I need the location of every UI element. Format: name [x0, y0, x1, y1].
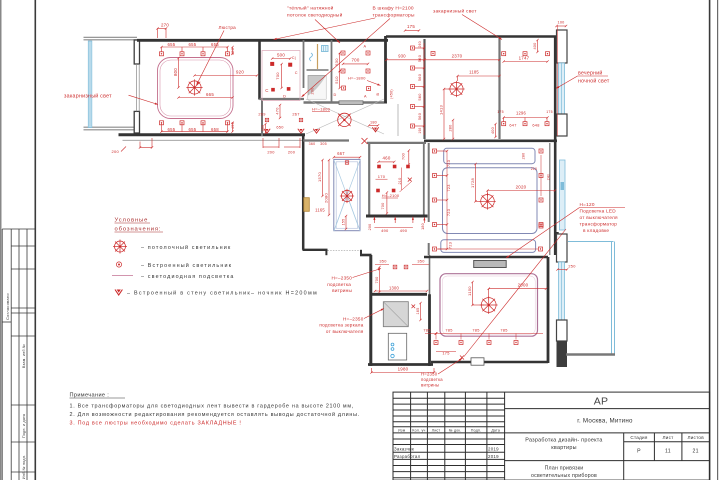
svg-text:155: 155 [341, 219, 345, 226]
svg-text:2. Для возможности редактирова: 2. Для возможности редактирования рекоме… [70, 411, 360, 418]
svg-text:800: 800 [173, 68, 178, 76]
right balcony cyan outline [568, 242, 615, 355]
top wall right section [386, 35, 557, 38]
svg-text:Согласовано: Согласовано [5, 293, 10, 320]
svg-text:305: 305 [320, 142, 327, 146]
svg-text:от выключателя: от выключателя [326, 329, 364, 334]
svg-text:№ док.: № док. [449, 428, 462, 432]
drawing frame right line [709, 0, 711, 480]
wc middle wall [307, 69, 329, 71]
svg-text:Заказчик: Заказчик [394, 447, 414, 452]
svg-text:1296: 1296 [516, 111, 527, 116]
roomA top squares [431, 52, 435, 56]
svg-text:D: D [283, 95, 286, 99]
svg-text:трансформатор: трансформатор [580, 222, 618, 227]
svg-text:350: 350 [379, 259, 387, 264]
svg-text:198: 198 [418, 127, 422, 133]
bedroom1 bottom wall [119, 133, 306, 136]
corridor floor wall joint [261, 100, 263, 136]
wardrobe dims [270, 62, 274, 66]
svg-text:– Встроенный светильник: – Встроенный светильник [141, 262, 232, 269]
storage left wall [368, 142, 370, 216]
svg-text:470: 470 [275, 107, 280, 115]
svg-text:360: 360 [309, 142, 316, 146]
bedroom1 bottom downlight row [160, 121, 164, 125]
svg-text:170: 170 [378, 174, 386, 179]
svg-text:вечерний: вечерний [578, 70, 603, 77]
1980 dim [372, 372, 435, 374]
bedroom1 left wall pier bottom [134, 111, 139, 133]
svg-text:Изм: Изм [398, 428, 406, 432]
svg-text:460: 460 [382, 155, 390, 160]
svg-text:H=120: H=120 [580, 202, 595, 207]
kitchen door X mark [362, 138, 368, 144]
svg-text:2080: 2080 [323, 193, 328, 203]
storage right wall [423, 143, 425, 216]
svg-text:647: 647 [509, 123, 516, 128]
corridor chandelier area [338, 113, 351, 126]
kitchen chandelier [340, 189, 354, 203]
top-right rooms bottom wall [424, 140, 557, 143]
svg-text:закарнизный свет: закарнизный свет [64, 93, 112, 100]
corridor right partition [423, 39, 425, 139]
right window 100 dim [557, 25, 567, 27]
svg-text:723: 723 [446, 160, 451, 167]
svg-text:560: 560 [417, 93, 422, 101]
corridor bottom wall left [138, 134, 262, 136]
roomB top downlights [502, 52, 506, 56]
bedroom1 left wall pier top [134, 40, 139, 64]
page border left edge [0, 0, 2, 480]
roomB bottom group [504, 117, 548, 119]
svg-text:осветительных приборов: осветительных приборов [531, 473, 597, 479]
bedroom1 top downlight row [160, 52, 164, 56]
kitchen bottom wall [303, 249, 328, 251]
bedroom2 cove band bottom [441, 240, 536, 253]
svg-text:1. Все трансформаторы для свет: 1. Все трансформаторы для светодиодных л… [70, 404, 354, 410]
svg-text:H=2350: H=2350 [421, 372, 438, 377]
legend led strip symbol [112, 275, 133, 277]
svg-text:450: 450 [261, 125, 265, 132]
svg-text:700: 700 [275, 72, 280, 80]
kitchen door tan [304, 198, 310, 212]
svg-text:655: 655 [189, 42, 197, 47]
svg-text:Разработал: Разработал [394, 454, 421, 459]
svg-text:175: 175 [546, 110, 553, 114]
svg-text:– Встроенный в стену светильни: – Встроенный в стену светильник– ночник … [127, 290, 318, 297]
svg-text:655: 655 [189, 127, 197, 132]
svg-text:План привязки: План привязки [545, 466, 584, 472]
svg-text:400: 400 [491, 127, 495, 134]
svg-text:240: 240 [547, 174, 551, 180]
bedroom1 dim 270 [158, 28, 167, 30]
shaft wall bottom black [557, 341, 568, 367]
svg-text:490: 490 [400, 228, 408, 233]
lobby/bath right wall upper [429, 255, 431, 296]
svg-text:C: C [295, 71, 298, 75]
closet partition wall [549, 143, 551, 255]
svg-text:D: D [334, 93, 337, 97]
svg-text:C|: C| [292, 56, 296, 60]
svg-text:785: 785 [445, 328, 452, 333]
svg-text:2370: 2370 [452, 53, 463, 58]
svg-text:658: 658 [211, 127, 219, 132]
svg-text:700: 700 [381, 202, 385, 209]
svg-text:3. Под все люстры необходимо с: 3. Под все люстры необходимо сделать ЗАК… [70, 421, 242, 427]
right window pier top [557, 30, 568, 63]
closet window cyan strip right middle [560, 160, 566, 230]
svg-text:100: 100 [557, 21, 564, 25]
svg-text:450: 450 [230, 47, 235, 55]
wc/bath bottom wall [304, 101, 388, 104]
svg-text:250: 250 [568, 264, 576, 269]
bedroom2 left downlights [433, 149, 437, 153]
dims below storage [373, 217, 375, 223]
svg-text:785: 785 [472, 328, 479, 333]
bedroom2 right downlights [539, 174, 543, 178]
living right wall [547, 257, 550, 363]
svg-text:175: 175 [497, 110, 504, 114]
svg-text:510: 510 [334, 76, 339, 84]
bath door grey bar [339, 101, 363, 105]
svg-text:648: 648 [532, 123, 539, 128]
wc blue coil [310, 53, 313, 61]
svg-text:обозначения:: обозначения: [115, 227, 162, 233]
svg-text:700: 700 [375, 276, 379, 283]
svg-text:650: 650 [276, 125, 284, 130]
page border right edge [717, 0, 719, 480]
svg-text:H=–2100: H=–2100 [382, 193, 400, 198]
title block [393, 392, 710, 480]
svg-text:700: 700 [351, 58, 359, 63]
svg-text:200: 200 [368, 224, 372, 231]
svg-text:200: 200 [112, 149, 120, 154]
living bottom wall opening [471, 358, 484, 365]
svg-text:– потолочный светильник: – потолочный светильник [141, 244, 231, 251]
250 dim right [558, 269, 568, 271]
svg-text:Разработка дизайн- проекта: Разработка дизайн- проекта [525, 437, 602, 444]
living cove [440, 274, 538, 337]
storage top wall [367, 142, 426, 144]
corridor door swing line [397, 104, 399, 136]
svg-text:1728: 1728 [470, 178, 475, 188]
svg-text:500: 500 [277, 53, 285, 58]
svg-text:723: 723 [446, 184, 451, 191]
svg-text:Инб.№ подл.: Инб.№ подл. [22, 455, 26, 479]
svg-text:подсветка зеркала: подсветка зеркала [319, 323, 363, 328]
svg-text:210: 210 [398, 177, 402, 184]
bedroom1 dim 920 [195, 75, 258, 77]
bedroom1 right wall / wardrobe left [258, 40, 261, 100]
bathroom dims [412, 305, 416, 309]
shaft wall top [556, 232, 558, 262]
svg-text:280: 280 [522, 153, 526, 160]
right window cyan strip top [559, 63, 565, 114]
svg-text:Дата: Дата [491, 428, 500, 432]
svg-text:2020: 2020 [516, 184, 527, 189]
svg-text:Условные: Условные [115, 218, 149, 224]
svg-text:180: 180 [370, 120, 377, 124]
legend wall lamp symbol [115, 290, 122, 296]
svg-text:560: 560 [417, 112, 422, 120]
wc right wall [331, 40, 333, 102]
svg-text:165: 165 [416, 307, 420, 314]
shaft cyan window [559, 262, 565, 320]
svg-text:267: 267 [292, 112, 299, 117]
svg-text:1165: 1165 [315, 208, 325, 213]
svg-text:B: B [376, 93, 380, 96]
svg-text:H=–2350: H=–2350 [331, 275, 352, 280]
left balcony grey walls [84, 37, 138, 130]
wardrobe cove [262, 51, 300, 101]
wardrobe bottom wall [260, 98, 305, 100]
left balcony window cyan strip [88, 41, 92, 128]
roomA chandelier [448, 81, 464, 97]
shower cabin [383, 302, 408, 327]
svg-text:Лист: Лист [663, 435, 675, 440]
svg-text:700: 700 [402, 153, 406, 160]
svg-text:Листов: Листов [687, 435, 704, 440]
svg-text:Люстра: Люстра [219, 25, 237, 30]
bedroom1 chandelier [186, 79, 202, 95]
svg-text:Стадия: Стадия [630, 435, 647, 440]
svg-text:C: C [265, 88, 268, 93]
bedroom2 left wall [428, 143, 430, 222]
hall wall stub right [360, 250, 362, 256]
svg-text:210: 210 [531, 167, 537, 171]
svg-text:785: 785 [423, 328, 430, 333]
bedroom1 left window lines [136, 64, 138, 111]
right window pier bottom [557, 114, 568, 136]
svg-text:560: 560 [417, 54, 422, 62]
wardrobe right wall [303, 40, 305, 88]
svg-text:930: 930 [398, 53, 406, 58]
svg-text:723: 723 [446, 209, 451, 216]
svg-text:1747: 1747 [519, 56, 530, 61]
svg-text:200: 200 [288, 150, 296, 155]
bedroom1 dim 800 [178, 58, 180, 88]
kitchen left wall [302, 135, 305, 250]
svg-text:Подсветка LED: Подсветка LED [580, 209, 617, 214]
closet leds [539, 149, 543, 153]
svg-text:"тёплый" натяжной: "тёплый" натяжной [287, 5, 334, 12]
hallway downlights [438, 248, 538, 250]
svg-text:269: 269 [258, 112, 265, 117]
svg-text:квартиры: квартиры [551, 445, 576, 451]
wc toilet grey [308, 76, 326, 100]
shaft pier 2 [557, 320, 568, 341]
svg-text:665: 665 [206, 92, 214, 97]
svg-text:витрины: витрины [332, 288, 352, 293]
top wall bedrooms section [137, 39, 388, 42]
svg-text:655: 655 [168, 127, 176, 132]
svg-text:трансформаторы: трансформаторы [373, 13, 415, 19]
svg-text:– светодиодная подсветка: – светодиодная подсветка [141, 274, 234, 280]
svg-text:200: 200 [267, 150, 275, 155]
long diagonal leader [464, 229, 566, 357]
svg-text:ночной свет: ночной свет [578, 78, 610, 85]
partition room A / room B [498, 38, 500, 139]
svg-text:450: 450 [230, 121, 235, 129]
svg-text:1570: 1570 [317, 172, 322, 182]
svg-text:Подп. и дата: Подп. и дата [22, 414, 26, 438]
svg-text:потолок светодиодный: потолок светодиодный [287, 12, 343, 19]
shaft pier 1 [557, 234, 568, 262]
svg-text:280: 280 [448, 124, 452, 131]
svg-text:11: 11 [665, 449, 671, 455]
svg-text:260: 260 [418, 41, 422, 47]
drawing frame left line [34, 0, 36, 480]
bathroom top wall [372, 293, 428, 296]
bedroom2 723 dims [446, 151, 448, 249]
corridor 175 top dim [405, 30, 419, 32]
svg-text:490: 490 [381, 228, 389, 233]
left attribute table [2, 229, 35, 480]
right balcony bottom grey wall [566, 353, 615, 356]
bedroom1 dim 665 [179, 97, 233, 99]
living door bar grey [474, 261, 507, 268]
svg-text:350: 350 [417, 259, 425, 264]
svg-text:1185: 1185 [469, 70, 479, 75]
svg-text:1413: 1413 [438, 105, 443, 115]
svg-text:от выключателя: от выключателя [580, 215, 619, 220]
wc water heater cyan box [322, 46, 329, 52]
svg-text:В шкафу H=2100: В шкафу H=2100 [373, 6, 414, 12]
svg-text:21: 21 [693, 449, 699, 455]
svg-text:723: 723 [448, 242, 453, 249]
svg-text:270: 270 [161, 23, 169, 28]
svg-text:подсветка: подсветка [327, 282, 351, 287]
svg-text:667: 667 [337, 151, 345, 156]
svg-text:920: 920 [236, 70, 244, 75]
bath block bottom wall [368, 363, 433, 366]
bedroom2 right wall [554, 36, 557, 255]
svg-text:H=–1800: H=–1800 [348, 76, 366, 81]
bath block left wall [369, 255, 372, 366]
bedroom2 cove band top [444, 148, 535, 163]
svg-text:1980: 1980 [398, 367, 409, 372]
kitchen island [334, 159, 360, 230]
svg-text:560: 560 [417, 73, 422, 81]
hall threshold dotted [328, 250, 361, 252]
living chandelier [480, 296, 498, 314]
svg-text:2019: 2019 [488, 454, 499, 459]
bedroom2 chandelier [479, 193, 496, 210]
svg-text:655: 655 [168, 42, 176, 47]
storage bottom wall [366, 215, 428, 218]
svg-text:2019: 2019 [488, 447, 499, 452]
bedroom1 ceiling cove [158, 58, 234, 119]
svg-text:1150: 1150 [467, 286, 472, 296]
svg-text:Лист: Лист [432, 428, 441, 432]
svg-text:180: 180 [421, 223, 425, 230]
living bottom wall [431, 361, 548, 364]
svg-text:Примечание :: Примечание : [70, 393, 110, 399]
svg-text:785: 785 [500, 328, 507, 333]
wc blue marks [391, 343, 394, 358]
svg-text:1300: 1300 [389, 285, 400, 290]
storage dims [379, 161, 395, 163]
living downlight row [434, 341, 438, 345]
kitchen top wall [303, 139, 349, 141]
svg-text:(450): (450) [390, 89, 394, 99]
living top wall [424, 256, 548, 259]
svg-text:A: A [364, 95, 367, 99]
svg-text:Взам. инб.№: Взам. инб.№ [22, 344, 26, 368]
svg-text:витрины: витрины [421, 383, 439, 388]
corridor 560 dim line [423, 43, 425, 135]
svg-text:Подп.: Подп. [471, 428, 482, 432]
wc door tan line [317, 44, 319, 69]
svg-text:Р: Р [637, 449, 641, 455]
legend chandelier symbol [113, 240, 127, 254]
svg-text:175: 175 [407, 24, 415, 29]
svg-text:400: 400 [533, 42, 537, 49]
bathroom right wall [384, 36, 387, 103]
corridor X pattern [306, 99, 384, 134]
svg-text:H=–1800: H=–1800 [312, 106, 331, 111]
svg-text:АР: АР [594, 396, 609, 408]
svg-text:г. Москва, Митино: г. Москва, Митино [577, 418, 633, 425]
svg-text:в кладовке: в кладовке [583, 228, 609, 233]
corridor bottom-left walls [261, 100, 263, 135]
bathroom right wall [428, 294, 431, 366]
bedroom1 bottom wall lower face [123, 139, 304, 141]
roomA dims [387, 59, 425, 61]
svg-text:A: A [364, 45, 367, 49]
legend downlight symbol [116, 262, 121, 267]
wc fixture [388, 333, 406, 360]
corridor downlights [411, 46, 415, 50]
svg-text:подсветка: подсветка [421, 377, 443, 382]
svg-text:H=–2350: H=–2350 [343, 316, 364, 321]
bedroom2 cove main [443, 168, 538, 234]
svg-text:закарнизный свет: закарнизный свет [433, 8, 477, 15]
svg-text:Кол. уч: Кол. уч [412, 428, 425, 432]
